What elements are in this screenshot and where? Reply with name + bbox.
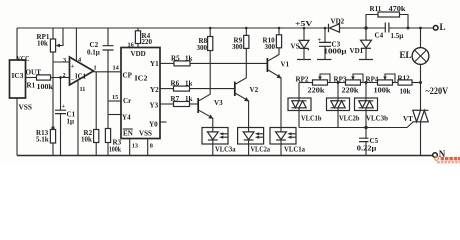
svg-text:Y2: Y2 xyxy=(150,86,159,94)
svg-text:220: 220 xyxy=(142,38,153,46)
svg-text:EL: EL xyxy=(400,50,412,60)
phototriac VLC1b xyxy=(288,98,322,128)
svg-text:14: 14 xyxy=(113,65,120,72)
node VCC label xyxy=(17,55,30,63)
node +5V label xyxy=(295,20,314,28)
node pin 16 label xyxy=(128,42,134,49)
optocoupler LED VLC2a xyxy=(238,128,271,156)
svg-text:VLC2b: VLC2b xyxy=(339,115,360,123)
node pin 15 label xyxy=(112,94,118,101)
resistor R10 xyxy=(263,27,282,51)
wire IC1 pin11 to bottom rail xyxy=(77,81,79,156)
IC2 counter xyxy=(121,48,160,139)
transistor V1 xyxy=(267,48,289,128)
wire RP1 to pin3 and down to R13 xyxy=(53,62,70,128)
svg-text:R5: R5 xyxy=(171,55,180,63)
svg-text:R11: R11 xyxy=(370,5,382,13)
resistor R3 xyxy=(105,129,121,156)
svg-text:2: 2 xyxy=(63,72,66,79)
resistor R9 xyxy=(232,27,249,51)
wire chain to VLC2b xyxy=(337,83,339,99)
potentiometer RP2 xyxy=(296,74,346,95)
svg-text:VD2: VD2 xyxy=(331,18,345,26)
wire R7 to V3 base xyxy=(190,103,199,105)
terminal L xyxy=(433,22,445,32)
node pin 2 label xyxy=(63,72,66,79)
svg-text:100k: 100k xyxy=(37,83,54,91)
svg-text:5.1k: 5.1k xyxy=(36,136,49,144)
wire Y0 stub xyxy=(160,121,167,123)
lamp EL xyxy=(400,27,429,65)
node B junction xyxy=(407,27,410,30)
svg-text:1k: 1k xyxy=(185,55,193,63)
wire top +5V rail left segment xyxy=(17,27,329,29)
svg-text:300: 300 xyxy=(232,43,243,51)
svg-text:100k: 100k xyxy=(109,146,121,154)
svg-text:470k: 470k xyxy=(389,5,406,13)
svg-text:Cr: Cr xyxy=(123,97,131,105)
svg-text:EN: EN xyxy=(123,130,133,138)
svg-text:10k: 10k xyxy=(81,136,92,144)
svg-text:1µ: 1µ xyxy=(67,118,75,126)
svg-text:IC2: IC2 xyxy=(135,75,149,83)
svg-text:1000µ: 1000µ xyxy=(324,48,347,56)
wire R5 to V1 base xyxy=(190,62,267,64)
node chain junctions xyxy=(337,81,423,84)
wire IC1 pin4 to rail xyxy=(75,28,77,61)
phototriac VLC2b xyxy=(327,98,360,128)
svg-text:V1: V1 xyxy=(281,61,290,69)
wire top rail right segment VD2 to C4 xyxy=(340,27,386,29)
svg-text:1k: 1k xyxy=(185,95,193,103)
svg-text:0.1µ: 0.1µ xyxy=(87,49,100,57)
svg-text:V2: V2 xyxy=(250,86,259,94)
svg-text:+: + xyxy=(318,37,322,44)
triac VT xyxy=(403,110,429,155)
svg-text:VLC1a: VLC1a xyxy=(284,146,305,154)
svg-text:+: + xyxy=(62,103,66,110)
node ~220V label xyxy=(426,86,449,96)
node pin 1 label xyxy=(94,65,97,72)
node pin 4 label xyxy=(78,57,82,64)
optocoupler LED VLC1a xyxy=(270,128,305,156)
svg-text:RP4: RP4 xyxy=(366,76,379,84)
svg-text:300: 300 xyxy=(265,43,276,51)
wire chain to VLC1b xyxy=(298,83,300,99)
resistor R11 xyxy=(366,5,408,28)
svg-text:VLC3b: VLC3b xyxy=(366,115,388,123)
wire Y4 rung xyxy=(108,114,121,116)
wire IC1 output to IC2 CP xyxy=(94,71,122,73)
svg-text:+: + xyxy=(71,63,75,70)
zener VS xyxy=(291,27,312,60)
svg-text:11: 11 xyxy=(80,86,86,93)
resistor R1 xyxy=(26,75,70,91)
capacitor C3 xyxy=(317,27,347,60)
svg-text:VLC1b: VLC1b xyxy=(301,115,322,123)
potentiometer chain start wire xyxy=(299,82,313,84)
svg-text:13: 13 xyxy=(132,143,138,150)
svg-text:C4: C4 xyxy=(375,32,384,40)
svg-text:R7: R7 xyxy=(171,95,180,103)
node VSS label IC3 xyxy=(19,103,33,111)
svg-text:IC3: IC3 xyxy=(12,72,24,80)
svg-text:VSS: VSS xyxy=(139,130,152,138)
resistor R12 xyxy=(398,75,421,96)
resistor R13 xyxy=(36,126,56,155)
diode VD1 xyxy=(350,28,374,60)
wire IC2 pin8 to rail xyxy=(148,139,153,156)
svg-text:VS: VS xyxy=(291,43,300,51)
node pin 11 label xyxy=(80,86,86,93)
svg-text:Y3: Y3 xyxy=(150,102,159,110)
diode VD2 xyxy=(329,18,345,33)
svg-text:Y0: Y0 xyxy=(149,121,158,129)
capacitor C1 xyxy=(55,76,76,155)
svg-text:R1: R1 xyxy=(27,82,36,90)
wire IC3 VSS to bottom rail xyxy=(16,98,18,156)
node OUT label xyxy=(26,69,42,77)
svg-text:VLC2a: VLC2a xyxy=(251,146,271,154)
svg-text:VT: VT xyxy=(403,115,413,123)
optocoupler LED VLC3a xyxy=(202,128,236,156)
node pin 14 label xyxy=(113,65,120,72)
watermark xyxy=(435,157,460,164)
svg-text:VSS: VSS xyxy=(19,103,33,111)
resistor R4 xyxy=(135,28,152,48)
svg-text:~220V: ~220V xyxy=(426,86,449,96)
resistor R2 xyxy=(81,72,99,156)
svg-text:300: 300 xyxy=(197,44,208,52)
svg-text:15: 15 xyxy=(112,94,118,101)
potentiometer RP4 xyxy=(366,74,399,95)
capacitor C2 xyxy=(87,28,114,101)
wire Cr line down to R3 xyxy=(107,101,109,129)
svg-text:1: 1 xyxy=(94,65,97,72)
svg-text:L: L xyxy=(440,22,446,32)
wire trigger bus xyxy=(299,122,413,129)
capacitor C5 xyxy=(357,128,379,156)
svg-text:R12: R12 xyxy=(398,75,411,83)
phototriac VLC3b xyxy=(355,98,389,128)
potentiometer RP1 xyxy=(37,28,64,62)
resistor R7 xyxy=(160,95,193,107)
svg-text:10k: 10k xyxy=(37,40,48,48)
svg-text:RP2: RP2 xyxy=(296,76,309,84)
node A junction xyxy=(364,26,367,29)
svg-text:RP3: RP3 xyxy=(334,76,347,84)
svg-text:VDD: VDD xyxy=(131,50,146,58)
IC3 touch IC xyxy=(10,60,26,98)
svg-text:Y1: Y1 xyxy=(150,60,159,68)
wire lamp to VT xyxy=(420,64,422,110)
svg-text:8: 8 xyxy=(150,143,153,150)
svg-text:−: − xyxy=(71,77,75,84)
svg-text:V3: V3 xyxy=(214,99,223,107)
capacitor C4 xyxy=(375,23,404,41)
svg-text:10k: 10k xyxy=(400,88,411,96)
svg-text:3: 3 xyxy=(63,57,66,64)
svg-text:Y4: Y4 xyxy=(122,114,131,122)
svg-text:220k: 220k xyxy=(342,87,359,95)
svg-text:0.22µ: 0.22µ xyxy=(357,144,377,152)
potentiometer RP3 xyxy=(334,74,378,95)
svg-text:VD1: VD1 xyxy=(350,47,364,55)
svg-text:R6: R6 xyxy=(171,80,180,88)
wire IC2 pin13 to rail xyxy=(130,139,138,156)
transistor V3 xyxy=(198,51,223,128)
wire bottom common rail xyxy=(17,155,433,157)
node pin 3 label xyxy=(63,57,66,64)
wire VCC drop to IC3 xyxy=(16,28,18,60)
svg-text:CP: CP xyxy=(123,72,133,80)
svg-text:1.5µ: 1.5µ xyxy=(391,32,404,40)
svg-text:100k: 100k xyxy=(374,87,391,95)
resistor R5 xyxy=(160,55,193,66)
terminal N xyxy=(433,149,446,159)
wire Cr rung xyxy=(108,100,121,102)
wire R6 to V2 base xyxy=(190,88,235,90)
svg-text:VLC3a: VLC3a xyxy=(215,146,236,154)
svg-text:16: 16 xyxy=(128,42,134,49)
wire top rail C4 to L xyxy=(389,27,433,29)
resistor R6 xyxy=(160,80,193,92)
wire chain to VLC3b xyxy=(365,83,367,99)
transistor V2 xyxy=(235,48,259,127)
svg-text:1k: 1k xyxy=(185,80,193,88)
svg-text:220k: 220k xyxy=(308,87,325,95)
svg-text:IC1: IC1 xyxy=(75,73,86,81)
op-amp IC1 xyxy=(70,57,94,85)
resistor R8 xyxy=(197,27,213,52)
